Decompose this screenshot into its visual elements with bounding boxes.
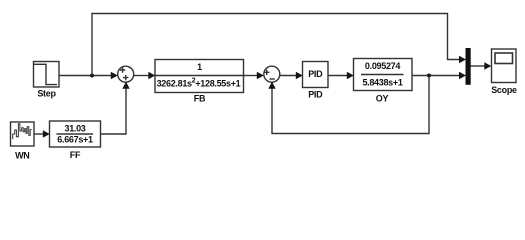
wire FF output up to sum1 bottom <box>101 89 127 135</box>
node junction-oy (branch to feedback) <box>427 74 431 78</box>
arrowhead up into sum2 bottom <box>268 82 275 89</box>
step source Step <box>34 62 60 88</box>
svg-text:6.667s+1: 6.667s+1 <box>57 135 93 145</box>
sign + (input 1) of sum2 <box>264 70 269 75</box>
sum block sum1 <box>118 66 134 82</box>
wire feedback loop down to sum2 <box>272 76 429 134</box>
noise source WN <box>11 122 35 146</box>
svg-text:OY: OY <box>376 94 389 104</box>
wire top branch to mux input 1 <box>92 14 460 76</box>
wire OY output to mux input 2 <box>412 75 460 77</box>
arrowhead into scope <box>484 62 491 69</box>
sign + (input 2) of sum1 <box>123 75 128 80</box>
arrowhead into PID <box>296 72 303 79</box>
arrowhead into mux top input <box>459 56 466 63</box>
wire WN to FF <box>34 133 43 135</box>
svg-text:Step: Step <box>37 89 56 99</box>
svg-text:3262.81s2+128.55s+1: 3262.81s2+128.55s+1 <box>157 78 241 89</box>
arrowhead into OY <box>347 72 354 79</box>
svg-text:FF: FF <box>70 150 81 160</box>
svg-text:Scope: Scope <box>491 85 517 95</box>
arrowhead into FF <box>43 130 50 137</box>
wire FB to sum2 <box>244 75 258 77</box>
noise waveform icon <box>13 124 32 139</box>
arrowhead into FB <box>148 72 155 79</box>
wire sum1 to FB <box>134 75 149 77</box>
sum block sum2 <box>264 66 280 82</box>
arrowhead up into sum1 bottom <box>122 82 129 89</box>
controller block PID <box>303 62 329 88</box>
transfer function block FF <box>50 121 101 147</box>
svg-text:WN: WN <box>15 151 29 161</box>
svg-text:FB: FB <box>194 94 206 104</box>
wire sum2 to PID <box>280 75 296 77</box>
wire Step output to sum junction <box>59 75 111 77</box>
transfer function block OY <box>354 59 413 91</box>
svg-text:0.095274: 0.095274 <box>365 61 400 71</box>
svg-text:1: 1 <box>197 62 202 72</box>
arrowhead into sum1 <box>111 72 118 79</box>
transfer function block FB <box>155 60 244 93</box>
arrowhead into sum2 <box>257 72 264 79</box>
svg-text:PID: PID <box>308 69 323 79</box>
wire mux to scope <box>471 65 485 67</box>
mux Mux <box>466 48 471 85</box>
svg-text:5.8438s+1: 5.8438s+1 <box>362 78 402 88</box>
node junction-step (branch to top feedback) <box>90 74 94 78</box>
svg-text:31.03: 31.03 <box>64 124 85 134</box>
sign + (input 1) of sum1 <box>120 67 125 72</box>
scope block Scope <box>492 49 517 83</box>
svg-text:PID: PID <box>308 90 323 100</box>
wire PID to OY <box>328 75 347 77</box>
sign - (input 2) of sum2 <box>269 78 274 80</box>
arrowhead into mux bottom input <box>459 72 466 79</box>
